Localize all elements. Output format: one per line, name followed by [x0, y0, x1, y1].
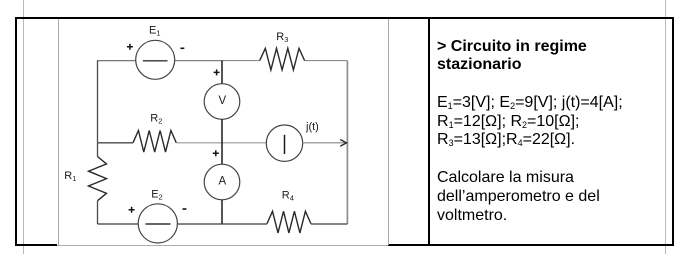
- wire top left (top node to E1): [97, 60, 136, 62]
- plus sign V: [214, 69, 220, 75]
- current source J1 circle: [266, 125, 302, 161]
- svg-text:R3: R3: [276, 31, 288, 44]
- plus sign E1: [127, 44, 133, 50]
- svg-text:R2: R2: [150, 113, 162, 126]
- svg-text:j(t): j(t): [305, 121, 319, 133]
- svg-text:R4: R4: [282, 190, 294, 203]
- gray cell border vertical at x=58: [58, 19, 59, 245]
- page margin gray vertical line right: [665, 0, 666, 254]
- page margin gray vertical line left: [23, 0, 24, 254]
- svg-text:V: V: [218, 95, 226, 107]
- plus sign A: [213, 150, 219, 156]
- wire current source to arrow: [303, 142, 345, 144]
- wire A to bottom: [221, 200, 223, 224]
- wire E2 to R4: [177, 223, 267, 225]
- gray cell border vertical at x=388: [388, 19, 389, 245]
- voltage source E1 circle: [136, 40, 175, 79]
- black vertical divider (text cell left border): [428, 18, 430, 245]
- voltmeter V circle: [204, 84, 240, 120]
- wire middle left (node to R2): [98, 142, 134, 144]
- wire right vertical: [346, 61, 348, 224]
- wire R2 to current source: [176, 142, 266, 144]
- wire V junction to R3: [222, 60, 260, 62]
- white cover over bottom border of circuit cell: [57, 244, 388, 246]
- wire R3 to top right corner: [305, 60, 348, 62]
- ammeter A circle: [204, 164, 240, 200]
- wire V to A: [221, 119, 223, 164]
- wire left vertical upper: [97, 61, 99, 143]
- svg-text:A: A: [218, 175, 226, 187]
- wire bottom left (node to E2): [98, 223, 139, 225]
- resistor R3: [260, 48, 305, 70]
- voltage source E2 bar: [146, 223, 171, 225]
- problem text panel: [437, 38, 665, 226]
- voltage source E1 bar: [143, 60, 168, 62]
- wire V branch top: [221, 61, 223, 84]
- wire E1 to V junction: [175, 60, 222, 62]
- resistor R2: [133, 131, 176, 153]
- minus sign E2: [183, 208, 187, 210]
- minus sign E1: [180, 47, 184, 49]
- plus sign E2: [129, 207, 135, 213]
- wire R4 to bottom right corner: [311, 223, 348, 225]
- resistor R1: [89, 157, 107, 201]
- resistor R4: [267, 211, 311, 233]
- current source J1 bar: [284, 135, 286, 154]
- svg-text:R1: R1: [64, 170, 76, 183]
- wire left vertical R1 leads: [97, 143, 99, 224]
- voltage source E2 circle: [138, 204, 177, 243]
- gray bottom border of circuit cell: [57, 245, 388, 246]
- svg-text:E2: E2: [151, 189, 163, 202]
- svg-text:E1: E1: [149, 25, 161, 38]
- arrowhead at right wire: [340, 140, 346, 147]
